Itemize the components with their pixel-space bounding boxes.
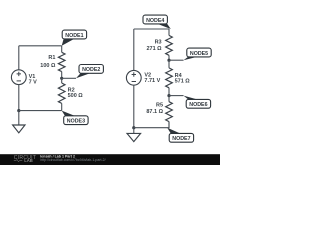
svg-text:7.71 V: 7.71 V: [144, 78, 160, 84]
wire left rail top: [18, 46, 20, 70]
svg-text:NODE7: NODE7: [172, 136, 190, 142]
voltage source V2: [126, 70, 141, 85]
ground right: [127, 133, 141, 141]
junction V2 bottom: [132, 126, 135, 129]
wire V2 bottom: [133, 85, 135, 128]
label R4: [175, 73, 191, 85]
node NODE4: [143, 15, 171, 29]
svg-text:NODE3: NODE3: [67, 119, 85, 125]
svg-text:R5: R5: [156, 103, 163, 109]
node NODE2: [76, 65, 103, 79]
footer bar: [0, 154, 220, 165]
wire right rail top: [133, 29, 135, 70]
resistor R1: [58, 46, 65, 79]
voltage source V1: [11, 70, 26, 85]
wire ground lead left: [18, 111, 20, 125]
svg-text:http://circuitlab.com/c/7bc94b: http://circuitlab.com/c/7bc94b/lab-1-par…: [40, 158, 105, 162]
junction R1-R2: [60, 77, 63, 80]
wire to NODE2: [62, 77, 76, 79]
resistor R3: [166, 29, 173, 60]
svg-text:100 Ω: 100 Ω: [40, 63, 56, 69]
svg-text:LAB: LAB: [24, 158, 33, 163]
wire top left: [19, 45, 62, 47]
wire to NODE6: [169, 95, 184, 97]
label R5: [146, 103, 163, 115]
label V1: [29, 74, 38, 86]
svg-text:571 Ω: 571 Ω: [175, 78, 191, 84]
node NODE6: [184, 96, 211, 109]
svg-text:271 Ω: 271 Ω: [146, 46, 162, 52]
svg-text:R3: R3: [155, 40, 162, 46]
wire to NODE5: [169, 59, 184, 61]
label R3: [146, 40, 162, 52]
node NODE3: [62, 111, 88, 125]
junction R4-R5: [167, 94, 170, 97]
junction V1 bottom: [17, 109, 20, 112]
resistor R5: [166, 96, 173, 128]
svg-text:NODE5: NODE5: [190, 51, 208, 57]
node NODE5: [184, 48, 212, 60]
svg-text:500 Ω: 500 Ω: [68, 93, 84, 99]
label R1: [40, 55, 56, 69]
wire bottom right: [134, 122, 169, 128]
svg-text:NODE6: NODE6: [189, 102, 207, 108]
wire ground lead right: [133, 128, 135, 134]
label R2: [68, 87, 84, 99]
resistor R4: [166, 60, 173, 95]
svg-text:NODE2: NODE2: [82, 67, 100, 73]
footer logo CircuitLab: [14, 155, 36, 163]
svg-text:7 V: 7 V: [29, 80, 38, 86]
label V2: [144, 72, 160, 84]
junction R3-R4: [167, 59, 170, 62]
wire top right: [134, 28, 169, 30]
ground left: [13, 125, 25, 133]
svg-text:NODE1: NODE1: [65, 33, 83, 39]
node NODE1: [62, 30, 87, 46]
wire V1 bottom: [18, 85, 20, 111]
svg-text:NODE4: NODE4: [146, 18, 164, 24]
resistor R2: [58, 78, 65, 110]
svg-text:R1: R1: [48, 55, 55, 61]
node NODE7: [167, 128, 193, 143]
svg-text:87.1 Ω: 87.1 Ω: [146, 109, 163, 115]
wire bottom left: [19, 110, 62, 112]
